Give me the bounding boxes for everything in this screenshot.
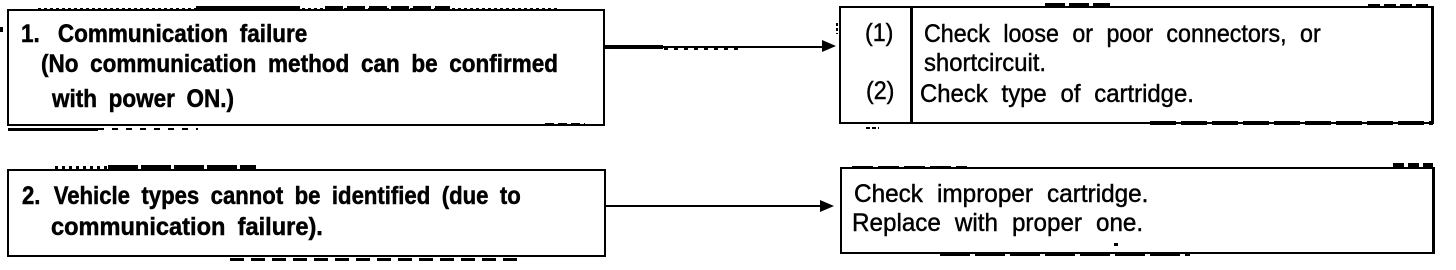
box 1 top scan noise run A [196,6,300,10]
arrow 1 shaft thick start [605,45,663,49]
box 2 bottom scan noise [230,258,520,261]
box 3 top-right scan noise [1368,4,1432,7]
box 4 (remedy 2) [840,167,1435,254]
box 1 top scan noise ticks [38,8,560,10]
arrow 1 head [822,40,836,52]
box 4 stray dot [1114,243,1118,246]
box 3 line 2 [924,51,1046,76]
box 4 top scan noise [852,166,967,169]
box 1 bottom-right scan noise [545,123,585,125]
box 3 top scan noise [1045,3,1110,7]
box 1 (problem 1) [7,9,605,126]
box 1 text line 2 [41,52,558,77]
box 4 top-right scan noise [1393,163,1433,167]
box 1 text line 3 [52,87,234,112]
box 1 text line 1 [21,22,307,47]
box 3 item (2) [866,79,894,104]
box 3 bottom scan noise [1150,121,1433,125]
box 1 bottom scan noise dense [8,128,98,131]
box 2 text line 1 [22,184,521,209]
arrow 2 shaft [606,205,822,207]
arrow 1 under-dashes [664,48,742,50]
box 2 top scan noise run [108,165,256,169]
box 3 line 1 [924,22,1321,47]
box 1 bottom scan noise sparse [98,128,198,130]
box 4 bottom scan noise [940,252,1190,256]
box 1 top scan noise run B [325,6,450,10]
box 3 bottom-left scan dashes [866,127,879,129]
box 4 line 1 [854,182,1148,207]
box 3 item (1) [865,21,893,46]
box 3 divider [910,6,913,124]
box 3 left-border scan ticks [836,23,838,34]
box 2 top scan noise ticks [55,166,110,169]
box 2 text line 2 [51,215,323,240]
left-edge stray mark [0,27,3,32]
box 2 (problem 2) [7,169,606,257]
box 4 line 2 [852,211,1143,236]
arrow 1 shaft [604,46,824,48]
box 3 line 3 [920,82,1194,107]
arrow 2 head [820,200,834,212]
box 3 (remedy 1) [839,6,1434,124]
